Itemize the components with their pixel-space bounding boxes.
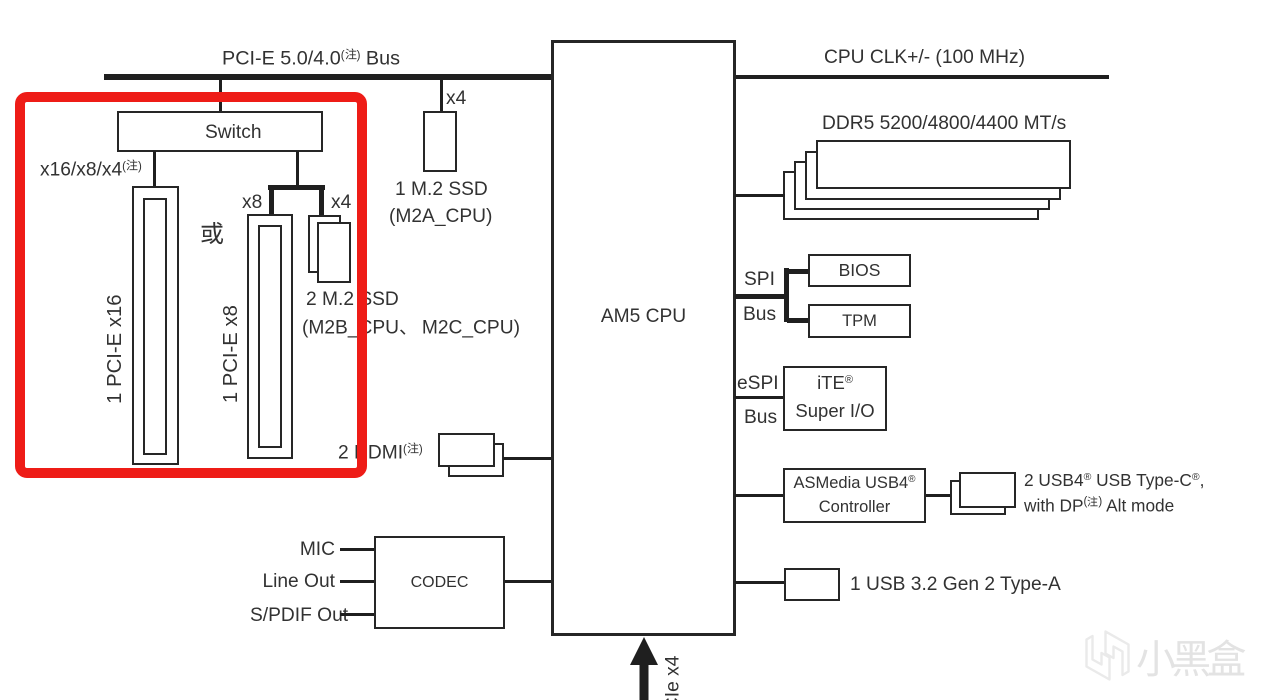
net label: PCI-E 5.0/4.0 (zhu) Bus [222,48,400,69]
pin label: x4 [331,193,351,212]
label: MIC [260,540,335,559]
box: HDMI front [438,433,495,467]
highlight: red rectangle [15,92,367,478]
box: M.2 SSD front (M2C) [317,222,351,283]
label: Super I/O [783,402,887,421]
label: eSPI [737,374,779,393]
label: PCIe x4 (rotated) [663,656,682,700]
wire: SPI bus horizontal (thick) [735,294,788,299]
wire: S/PDIF stub [340,613,375,616]
label: 1 PCI-E x8 (rotated) [221,294,241,414]
wire: CPU to ASMedia [735,494,783,497]
wire: bus to Switch vertical [219,78,222,111]
box: USB 3.2 port [784,568,840,601]
label: Bus (SPI) [743,305,776,324]
wire: CPU to USB 3.2 [735,581,784,584]
box: M.2 SSD back (M2B) [308,215,341,273]
label: 2 USB4 USB Type-C [1024,472,1204,489]
label: (M2B_CPU, M2C_CPU) [302,317,520,338]
watermark: xiaoheihe logo [1080,626,1134,684]
label: with DP (zhu) Alt mode [1024,496,1174,515]
wire: eSPI bus [735,396,783,399]
net label: x16/x8/x4 (zhu) [40,159,142,180]
net label: CPU CLK+/- (100 MHz) [824,48,1025,67]
wire: PCI-E 5.0/4.0 bus (left thick horizontal) [104,74,554,80]
wire: ASMedia to USB-C ports [926,494,950,497]
label: iTE [783,374,887,393]
wire: x8/x4 tee bar [268,185,325,190]
box: AM5 CPU [551,40,736,636]
box: USB-C front [959,472,1016,508]
wire: HDMI to CPU [503,457,552,460]
box: DIMM 1 (front) [816,140,1071,189]
wire: CPU CLK bus (right horizontal) [735,75,1109,79]
wire: SPI bus vertical (thick) [784,268,789,322]
slot: PCI-E x8 inner [258,225,282,448]
box: Switch [117,111,323,152]
label: S/PDIF Out [250,606,335,625]
label: 2 M.2 SSD [306,290,399,309]
box: HDMI back [448,443,504,477]
box: DIMM 3 [794,161,1050,210]
box: CODEC [374,536,505,629]
label: 1 PCI-E x16 (rotated) [105,289,125,409]
label: ASMedia USB4 [783,475,926,492]
pin label: x4 (M2A lane) [446,89,466,108]
wire: Line Out stub [340,580,375,583]
wire: Switch to x8/x4 tee [296,151,299,187]
label: Line Out [260,572,335,591]
wire: Switch to PCI-E x16 slot [153,151,156,186]
label: (M2A_CPU) [389,207,492,226]
slot: PCI-E x8 outer [247,214,293,459]
box: BIOS [808,254,911,287]
box: ASMedia USB4 Controller [783,468,926,523]
label: DDR5 5200/4800/4400 MT/s [822,114,1066,133]
wire: tee right drop to M.2 stack [319,185,324,216]
label: AM5 CPU [551,307,736,326]
label: 2 HDMI (zhu) [338,442,423,463]
slot: PCI-E x16 inner [143,198,167,455]
box: USB-C back [950,480,1006,515]
wire: MIC stub [340,548,375,551]
label: 1 USB 3.2 Gen 2 Type-A [850,575,1061,594]
label: 1 M.2 SSD [395,180,488,199]
wire: bus to M.2 SSD x4 vertical [440,78,443,112]
box: iTE Super I/O [783,366,887,431]
wire: tee left drop to x8 slot [269,185,274,214]
box: M.2 SSD (M2A_CPU) [423,111,457,172]
pin label: x8 [242,193,262,212]
wire: stub to TPM [787,318,808,323]
label: SPI [744,270,775,289]
wire: CODEC to CPU [505,580,552,583]
box: TPM [808,304,911,338]
wire: stub to BIOS [787,269,808,274]
wire: CPU to DIMM stack [735,194,785,197]
box: DIMM 2 [805,151,1061,200]
slot: PCI-E x16 outer [132,186,179,465]
label: Bus (eSPI) [744,408,777,427]
box: DIMM 4 (backmost) [783,171,1039,220]
watermark: xiao hei he text [1136,638,1246,682]
arrow: PCIe x4 into CPU bottom [624,635,664,700]
label: Controller [783,499,926,516]
label: or (Chinese) [200,221,224,245]
